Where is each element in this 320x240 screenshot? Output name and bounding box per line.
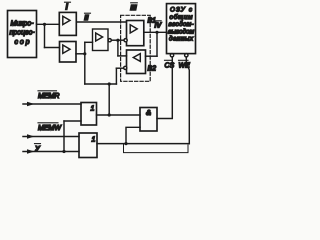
- inverter U1 box: [93, 29, 109, 51]
- svg-text:CS: CS: [165, 63, 175, 70]
- wire MP output: [37, 23, 60, 25]
- label II: [84, 13, 90, 22]
- B2 enable bubble: [124, 66, 127, 69]
- svg-text:MEMW: MEMW: [38, 125, 62, 132]
- svg-text:1: 1: [92, 137, 96, 144]
- svg-text:1: 1: [91, 106, 95, 113]
- svg-text:процес-: процес-: [10, 30, 36, 37]
- node clock branch: [62, 150, 65, 153]
- wire branch to AND second input: [126, 127, 140, 143]
- svg-text:Микро-: Микро-: [11, 21, 35, 28]
- buffer I box: [59, 12, 76, 35]
- wire OR1 second input: [64, 120, 81, 122]
- node buffer2 join: [83, 52, 86, 55]
- wire to buffer 2: [45, 47, 60, 49]
- svg-text:В2: В2: [148, 66, 157, 73]
- wire OR2 output / WE line: [97, 143, 189, 145]
- wire clock: [23, 151, 79, 153]
- node B1 output branch: [155, 31, 158, 34]
- wire inverter output: [111, 39, 124, 41]
- wire B2 left data line: [118, 55, 127, 57]
- signal clock label: [35, 144, 42, 153]
- node bus split: [43, 23, 46, 26]
- wire enable rail horizontal: [85, 83, 117, 85]
- wire bus vertical: [44, 24, 46, 47]
- wire MEMR: [23, 103, 81, 105]
- buffer 2 box: [60, 42, 77, 63]
- svg-text:данных: данных: [169, 35, 194, 43]
- label WE: [179, 60, 191, 69]
- wire B2 enable: [116, 67, 123, 69]
- wire enable vertical: [115, 68, 117, 84]
- OR gate 2 box: [79, 133, 97, 158]
- OR gate 1 box: [81, 103, 97, 126]
- RAM text: [168, 7, 195, 43]
- buffer B2 box: [127, 50, 146, 74]
- inverter output bubble: [108, 39, 111, 42]
- wire rail down to OR1 output: [108, 84, 110, 115]
- wire lower parallel segment: [124, 144, 189, 153]
- wire OR1 output to AND: [97, 114, 141, 116]
- label CS: [165, 60, 175, 69]
- svg-text:ОЗУ с: ОЗУ с: [170, 7, 193, 14]
- label III: [130, 3, 137, 12]
- buffer B1 box: [127, 21, 144, 46]
- B1 triangle: [130, 25, 137, 33]
- buffer 2 triangle: [63, 45, 70, 53]
- wire WE vertical: [186, 57, 189, 144]
- B2 triangle: [133, 54, 140, 62]
- svg-text:MEMR: MEMR: [38, 93, 59, 100]
- svg-text:III: III: [130, 3, 137, 12]
- node OR2 output branch: [124, 142, 127, 145]
- svg-text:&: &: [146, 110, 151, 117]
- wire OR1 input vertical from clock: [63, 121, 65, 152]
- node rail branch: [108, 82, 111, 85]
- signal MEMW label: [38, 123, 62, 132]
- buffer I triangle: [63, 16, 70, 24]
- arrow clock: [27, 149, 35, 153]
- wire control rail vertical: [84, 42, 86, 84]
- CS input bubble: [170, 54, 173, 57]
- WE input bubble: [185, 54, 188, 57]
- arrow MEMR: [27, 102, 35, 106]
- wire down to B2 input: [156, 32, 158, 56]
- wire into B2 right side: [146, 55, 158, 57]
- B1 enable bubble: [124, 39, 127, 42]
- svg-text:выводом: выводом: [168, 27, 195, 35]
- microprocessor text: [10, 21, 36, 47]
- inverter triangle: [96, 33, 103, 41]
- wire buffer2 output: [76, 53, 85, 55]
- AND gate box: [140, 108, 157, 132]
- dashed block III: [121, 15, 151, 81]
- RAM box: [167, 4, 196, 54]
- wire II (buffer I to B1): [76, 21, 126, 23]
- node OR1 output: [108, 113, 111, 116]
- signal MEMR label: [38, 91, 59, 100]
- wire MEMW: [23, 136, 79, 138]
- svg-text:общим: общим: [170, 13, 194, 21]
- wire B1 to RAM (bus IV): [144, 31, 167, 33]
- arrow MEMW: [27, 134, 35, 138]
- microprocessor box: [8, 11, 37, 58]
- wire CS vertical: [157, 57, 172, 119]
- label IV: [155, 21, 163, 30]
- wire to inverter input: [85, 41, 93, 43]
- label I: [65, 2, 71, 12]
- svg-text:вводом-: вводом-: [169, 20, 194, 28]
- svg-text:сор: сор: [15, 39, 30, 46]
- wire branch down to B2 data line: [117, 40, 119, 56]
- node inverter output branch: [116, 39, 119, 42]
